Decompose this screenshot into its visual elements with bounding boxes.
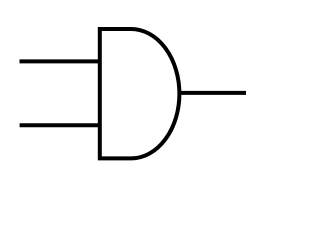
wire input A (20, 59, 100, 63)
wire output (179, 91, 246, 95)
wire input B (20, 123, 100, 127)
AND gate U1 body (100, 29, 180, 158)
